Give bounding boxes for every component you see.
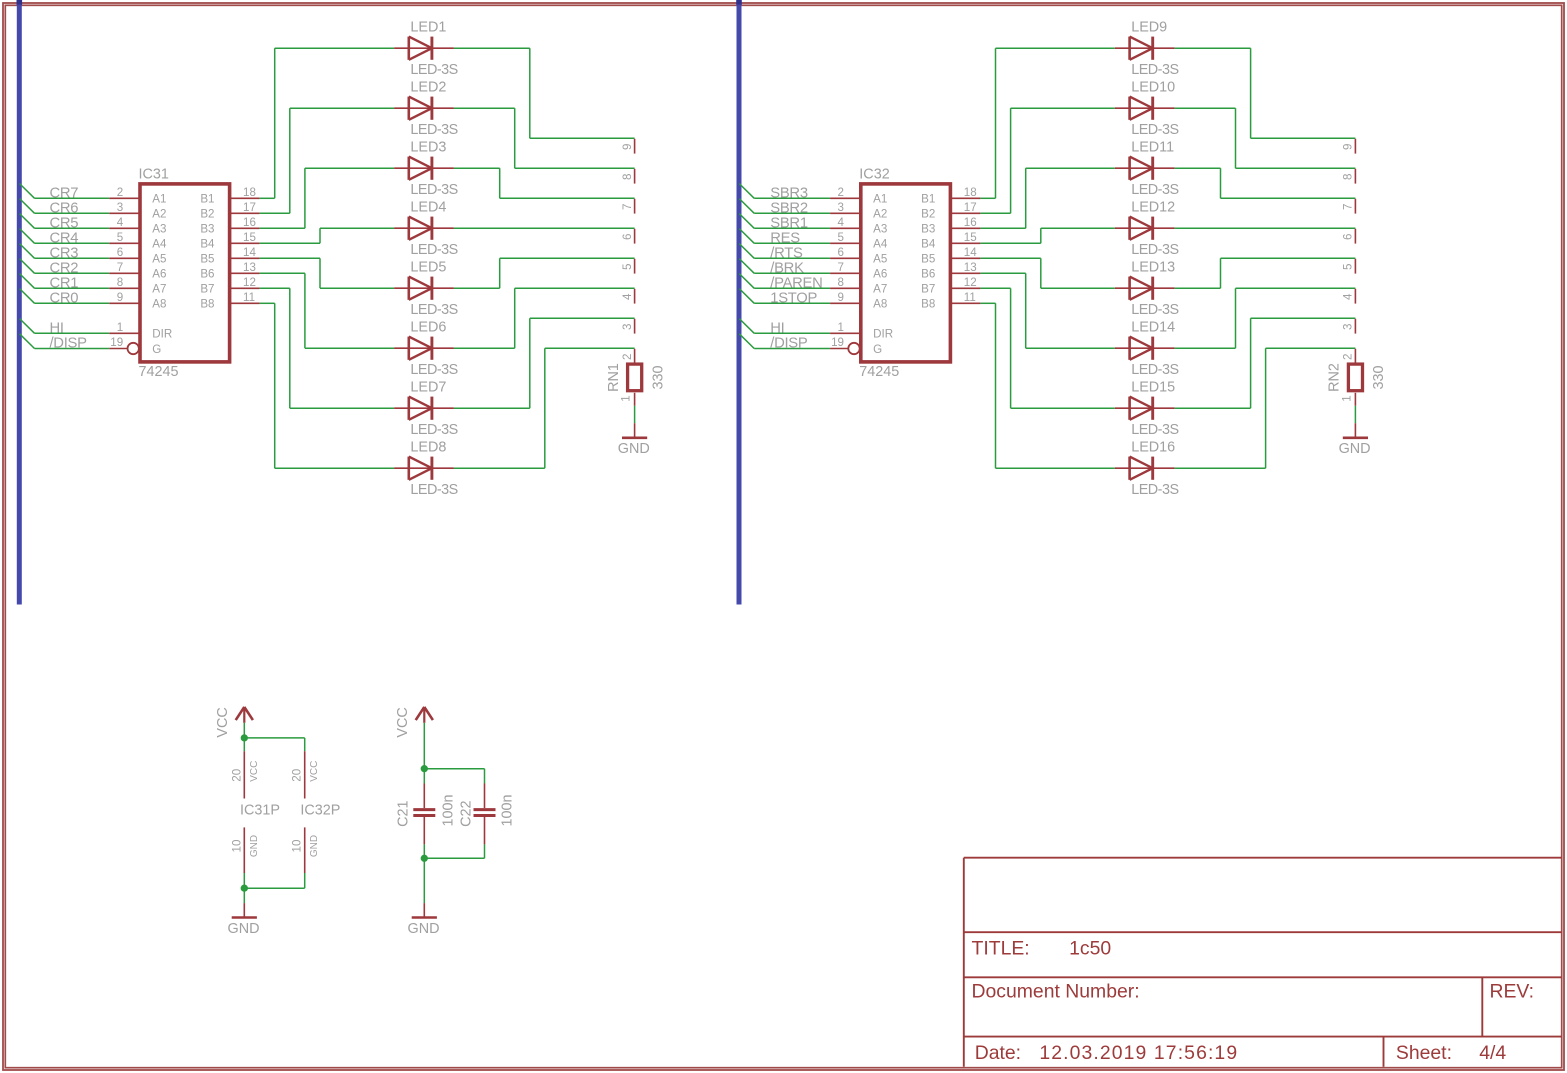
svg-text:DIR: DIR	[152, 328, 172, 341]
svg-text:GND: GND	[249, 835, 260, 857]
svg-text:G: G	[152, 343, 161, 356]
svg-text:LED10: LED10	[1131, 79, 1175, 95]
svg-text:A7: A7	[873, 283, 887, 296]
svg-text:74245: 74245	[859, 364, 899, 380]
svg-text:CR3: CR3	[50, 245, 79, 261]
svg-text:1STOP: 1STOP	[770, 290, 817, 306]
svg-text:LED-3S: LED-3S	[1131, 422, 1178, 438]
svg-text:100n: 100n	[500, 794, 516, 826]
svg-text:5: 5	[1342, 264, 1355, 270]
svg-text:LED15: LED15	[1131, 379, 1175, 395]
svg-text:LED13: LED13	[1131, 259, 1175, 275]
svg-text:LED-3S: LED-3S	[410, 482, 457, 498]
svg-text:B5: B5	[200, 253, 214, 266]
svg-text:7: 7	[838, 261, 844, 274]
svg-text:GND: GND	[1339, 441, 1371, 457]
svg-text:B5: B5	[921, 253, 935, 266]
svg-text:LED1: LED1	[410, 19, 446, 35]
svg-text:4/4: 4/4	[1479, 1042, 1506, 1064]
svg-text:LED12: LED12	[1131, 199, 1175, 215]
svg-text:20: 20	[291, 769, 304, 782]
svg-text:LED8: LED8	[410, 439, 446, 455]
svg-text:LED5: LED5	[410, 259, 446, 275]
svg-text:/PAREN: /PAREN	[770, 275, 822, 291]
svg-text:16: 16	[964, 216, 977, 229]
svg-text:B8: B8	[200, 298, 214, 311]
svg-text:CR2: CR2	[50, 260, 79, 276]
svg-text:4: 4	[621, 293, 634, 300]
svg-text:IC32: IC32	[859, 166, 889, 182]
svg-text:RN1: RN1	[606, 363, 622, 392]
svg-text:6: 6	[838, 246, 844, 259]
svg-text:3: 3	[1342, 324, 1355, 330]
svg-text:6: 6	[117, 246, 123, 259]
svg-text:/DISP: /DISP	[50, 336, 88, 352]
svg-text:2: 2	[117, 186, 123, 199]
svg-text:LED-3S: LED-3S	[1131, 182, 1178, 198]
svg-text:VCC: VCC	[395, 707, 411, 737]
svg-text:B2: B2	[921, 208, 935, 221]
svg-text:2: 2	[1342, 354, 1355, 360]
svg-text:B6: B6	[921, 268, 935, 281]
svg-text:IC31P: IC31P	[240, 803, 280, 819]
svg-text:15: 15	[243, 231, 256, 244]
svg-text:G: G	[873, 343, 882, 356]
svg-text:B4: B4	[200, 238, 215, 251]
svg-text:A5: A5	[873, 253, 887, 266]
svg-text:B4: B4	[921, 238, 936, 251]
svg-text:SBR2: SBR2	[770, 200, 808, 216]
svg-text:A1: A1	[873, 193, 887, 206]
svg-text:7: 7	[117, 261, 123, 274]
svg-text:LED16: LED16	[1131, 439, 1175, 455]
svg-text:LED-3S: LED-3S	[1131, 482, 1178, 498]
svg-text:7: 7	[1342, 204, 1355, 210]
svg-text:LED-3S: LED-3S	[410, 422, 457, 438]
svg-text:GND: GND	[228, 921, 260, 937]
svg-text:6: 6	[1342, 234, 1355, 240]
svg-text:A7: A7	[152, 283, 166, 296]
svg-text:REV:: REV:	[1490, 981, 1535, 1003]
svg-text:A6: A6	[873, 268, 887, 281]
svg-text:B3: B3	[200, 223, 214, 236]
svg-text:330: 330	[1371, 365, 1387, 389]
svg-text:B8: B8	[921, 298, 935, 311]
svg-text:15: 15	[964, 231, 977, 244]
svg-text:9: 9	[1342, 144, 1355, 150]
svg-text:CR6: CR6	[50, 200, 79, 216]
svg-text:CR5: CR5	[50, 215, 79, 231]
svg-text:3: 3	[621, 324, 634, 330]
svg-text:SBR1: SBR1	[770, 215, 808, 231]
svg-text:14: 14	[964, 246, 977, 259]
svg-text:Date:: Date:	[975, 1042, 1021, 1064]
svg-text:1: 1	[838, 321, 844, 334]
svg-text:330: 330	[650, 365, 666, 389]
svg-text:HI: HI	[770, 320, 784, 336]
svg-text:LED-3S: LED-3S	[410, 362, 457, 378]
svg-text:GND: GND	[309, 835, 320, 857]
svg-text:A5: A5	[152, 253, 166, 266]
svg-text:14: 14	[243, 246, 256, 259]
svg-text:LED-3S: LED-3S	[410, 302, 457, 318]
svg-text:9: 9	[117, 291, 123, 304]
svg-text:TITLE:: TITLE:	[972, 938, 1030, 960]
svg-text:10: 10	[291, 840, 304, 853]
svg-text:C21: C21	[395, 800, 411, 826]
svg-text:17: 17	[243, 201, 256, 214]
svg-text:17: 17	[964, 201, 977, 214]
svg-text:LED7: LED7	[410, 379, 446, 395]
svg-text:4: 4	[1342, 293, 1355, 300]
svg-text:20: 20	[230, 769, 243, 782]
svg-text:LED-3S: LED-3S	[410, 242, 457, 258]
svg-text:4: 4	[117, 216, 124, 229]
svg-text:A1: A1	[152, 193, 166, 206]
svg-text:A6: A6	[152, 268, 166, 281]
svg-text:B6: B6	[200, 268, 214, 281]
svg-text:18: 18	[243, 186, 256, 199]
svg-text:3: 3	[117, 201, 123, 214]
svg-text:B7: B7	[200, 283, 214, 296]
svg-text:VCC: VCC	[249, 761, 260, 782]
svg-text:/BRK: /BRK	[770, 260, 804, 276]
svg-text:VCC: VCC	[309, 761, 320, 782]
svg-text:CR1: CR1	[50, 275, 79, 291]
svg-text:1: 1	[117, 321, 123, 334]
svg-text:11: 11	[243, 291, 255, 304]
svg-text:LED-3S: LED-3S	[410, 62, 457, 78]
svg-text:A4: A4	[873, 238, 888, 251]
svg-text:C22: C22	[458, 800, 474, 826]
svg-text:HI: HI	[50, 320, 64, 336]
svg-text:LED-3S: LED-3S	[410, 122, 457, 138]
svg-text:4: 4	[838, 216, 845, 229]
svg-text:CR0: CR0	[50, 290, 79, 306]
svg-text:LED-3S: LED-3S	[410, 182, 457, 198]
svg-text:VCC: VCC	[215, 707, 231, 737]
svg-text:13: 13	[243, 261, 256, 274]
svg-text:B7: B7	[921, 283, 935, 296]
svg-text:RES: RES	[770, 230, 800, 246]
svg-text:6: 6	[621, 234, 634, 240]
svg-text:SBR3: SBR3	[770, 185, 808, 201]
svg-text:19: 19	[831, 336, 844, 349]
svg-text:10: 10	[230, 840, 243, 853]
svg-text:5: 5	[621, 264, 634, 270]
svg-text:2: 2	[621, 354, 634, 360]
svg-text:LED14: LED14	[1131, 319, 1175, 335]
svg-text:9: 9	[838, 291, 844, 304]
svg-text:IC31: IC31	[139, 166, 169, 182]
svg-text:16: 16	[243, 216, 256, 229]
svg-text:A2: A2	[152, 208, 166, 221]
svg-text:LED-3S: LED-3S	[1131, 362, 1178, 378]
svg-text:CR7: CR7	[50, 185, 79, 201]
svg-text:/RTS: /RTS	[770, 245, 803, 261]
svg-text:3: 3	[838, 201, 844, 214]
svg-text:12: 12	[964, 276, 977, 289]
svg-text:LED11: LED11	[1131, 139, 1174, 155]
svg-text:9: 9	[621, 144, 634, 150]
svg-text:1: 1	[620, 395, 633, 401]
svg-text:LED9: LED9	[1131, 19, 1167, 35]
svg-text:IC32P: IC32P	[300, 803, 340, 819]
svg-text:LED3: LED3	[410, 139, 446, 155]
svg-text:11: 11	[964, 291, 976, 304]
svg-text:LED-3S: LED-3S	[1131, 242, 1178, 258]
svg-text:8: 8	[621, 174, 634, 180]
svg-text:1: 1	[1340, 395, 1353, 401]
svg-text:B1: B1	[200, 193, 214, 206]
svg-text:A8: A8	[152, 298, 166, 311]
svg-text:2: 2	[838, 186, 844, 199]
svg-text:74245: 74245	[139, 364, 179, 380]
svg-text:B2: B2	[200, 208, 214, 221]
svg-text:LED-3S: LED-3S	[1131, 302, 1178, 318]
svg-text:/DISP: /DISP	[770, 336, 808, 352]
svg-text:A4: A4	[152, 238, 167, 251]
svg-text:A3: A3	[873, 223, 887, 236]
svg-text:Sheet:: Sheet:	[1396, 1042, 1452, 1064]
svg-text:8: 8	[1342, 174, 1355, 180]
svg-text:B1: B1	[921, 193, 935, 206]
svg-text:LED4: LED4	[410, 199, 446, 215]
svg-text:RN2: RN2	[1327, 363, 1343, 392]
svg-text:DIR: DIR	[873, 328, 893, 341]
svg-text:LED6: LED6	[410, 319, 446, 335]
svg-text:5: 5	[117, 231, 123, 244]
svg-text:LED-3S: LED-3S	[1131, 122, 1178, 138]
svg-text:13: 13	[964, 261, 977, 274]
svg-text:A2: A2	[873, 208, 887, 221]
svg-text:19: 19	[110, 336, 123, 349]
svg-text:A3: A3	[152, 223, 166, 236]
svg-text:LED2: LED2	[410, 79, 446, 95]
svg-text:100n: 100n	[440, 794, 456, 826]
svg-text:Document Number:: Document Number:	[972, 981, 1140, 1003]
svg-text:CR4: CR4	[50, 230, 79, 246]
svg-text:B3: B3	[921, 223, 935, 236]
svg-text:1c50: 1c50	[1069, 938, 1111, 960]
svg-text:7: 7	[621, 204, 634, 210]
svg-text:12.03.2019 17:56:19: 12.03.2019 17:56:19	[1039, 1042, 1238, 1064]
svg-text:8: 8	[838, 276, 844, 289]
svg-text:5: 5	[838, 231, 844, 244]
svg-text:GND: GND	[618, 441, 650, 457]
svg-text:8: 8	[117, 276, 123, 289]
svg-text:LED-3S: LED-3S	[1131, 62, 1178, 78]
svg-text:A8: A8	[873, 298, 887, 311]
svg-text:GND: GND	[408, 921, 440, 937]
svg-text:18: 18	[964, 186, 977, 199]
svg-text:12: 12	[243, 276, 256, 289]
